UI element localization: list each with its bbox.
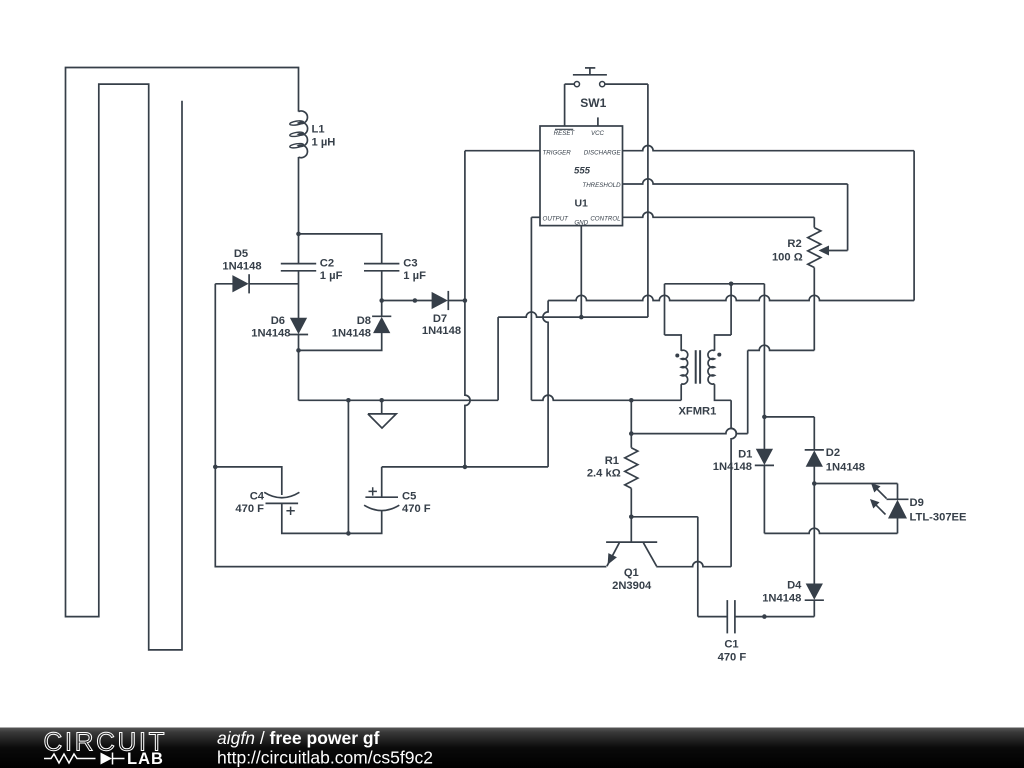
svg-text:GND: GND <box>574 220 588 227</box>
node: D6/D8 bottom junction <box>296 348 301 353</box>
capacitor C2 <box>281 264 316 271</box>
D4 labels <box>762 579 802 604</box>
svg-text:470 F: 470 F <box>718 651 747 663</box>
wire: C5 top to y466 <box>381 467 383 497</box>
logo LAB <box>127 750 164 768</box>
D2 labels <box>826 447 865 474</box>
wire: D7 cathode to trigger rail <box>448 300 465 302</box>
svg-text:1N4148: 1N4148 <box>713 461 752 473</box>
svg-text:CONTROL: CONTROL <box>590 216 621 223</box>
capacitor C1 470F <box>727 600 735 633</box>
XFMR1 phase dot secondary <box>717 353 721 357</box>
wire: D8 top to D7 node <box>381 301 383 317</box>
wire: C3 bottom to D7 node <box>381 271 383 301</box>
svg-text:C5: C5 <box>402 490 416 502</box>
svg-text:R1: R1 <box>605 455 619 467</box>
svg-text:http://circuitlab.com/cs5f9c2: http://circuitlab.com/cs5f9c2 <box>217 747 433 767</box>
svg-text:SW1: SW1 <box>580 96 606 110</box>
capacitor C4 470F <box>264 492 299 515</box>
svg-text:D6: D6 <box>271 315 285 327</box>
diode D2 1N4148 <box>805 450 824 466</box>
wire: right rail down <box>913 151 915 301</box>
wire: line B drop to ground line <box>497 317 499 400</box>
D7 labels <box>422 313 461 337</box>
svg-text:R2: R2 <box>787 238 801 250</box>
wire: OUTPUT pin down <box>531 217 540 400</box>
svg-text:1N4148: 1N4148 <box>251 327 290 339</box>
svg-text:aigfn / free power gf: aigfn / free power gf <box>217 728 380 748</box>
diode D8 1N4148 <box>372 316 391 332</box>
C2 labels <box>320 257 343 282</box>
wire: D5 rail (x=215) down <box>214 284 216 467</box>
pin GND label <box>574 220 588 227</box>
wire: D7 anode <box>382 300 432 302</box>
node: trigger rail / C4 line junction <box>463 465 468 470</box>
wire: D9 bottom to bottom link <box>897 518 899 533</box>
wire: L1 bottom to node <box>298 157 300 234</box>
pin THRESHOLD label <box>582 182 621 189</box>
node: dot on C1 wire <box>762 614 767 619</box>
wire: trigger vertical rail <box>465 151 470 467</box>
wire: C4 bottom to mid node <box>282 503 349 533</box>
footer bar <box>0 728 1024 768</box>
svg-text:C3: C3 <box>403 257 417 269</box>
wire: D6 to bottom node <box>298 335 300 351</box>
svg-text:TRIGGER: TRIGGER <box>543 149 572 156</box>
pin CONTROL label <box>590 216 621 223</box>
capacitor C3 <box>364 264 399 271</box>
svg-text:2N3904: 2N3904 <box>612 580 652 592</box>
wire: SW1 rail down to gnd line <box>647 84 649 317</box>
footer title text <box>217 728 380 748</box>
node: x215/y466 junction <box>213 465 218 470</box>
wire: OUTPUT horizontal to primary bottom <box>531 395 681 400</box>
wire: line A drop at x=548 <box>543 301 548 467</box>
wire: y=466 right segment <box>382 466 548 468</box>
C5 labels <box>402 490 431 515</box>
ground symbol <box>368 400 396 428</box>
LED D9 LTL-307EE <box>871 484 909 518</box>
node: L1/C2/C3 junction <box>296 232 301 237</box>
wire: ground line y=400 <box>299 399 499 401</box>
svg-text:D5: D5 <box>234 248 248 260</box>
svg-text:2.4 kΩ: 2.4 kΩ <box>587 468 621 480</box>
transistor Q1 2N3904 <box>606 542 657 566</box>
wire: Q1 base <box>630 517 632 542</box>
wire: D5 anode from left rail <box>215 283 233 285</box>
wire: C2-bottom rail down <box>298 350 300 400</box>
node: C4/C5 bottom junction <box>346 531 351 536</box>
svg-text:DISCHARGE: DISCHARGE <box>584 149 622 156</box>
resistor R1 2.4k <box>625 448 638 489</box>
D5 labels <box>222 248 261 273</box>
wire: bottom loop left+bottom <box>215 467 606 567</box>
svg-text:D2: D2 <box>826 447 840 459</box>
transformer XFMR1 primary winding <box>681 350 688 384</box>
wire: THRESHOLD to R2 wiper <box>623 179 848 251</box>
XFMR1 phase dot primary <box>675 354 679 358</box>
C1 labels <box>718 639 747 664</box>
svg-text:1 µF: 1 µF <box>403 270 426 282</box>
node: gnd line / C4C5 mid <box>346 398 351 403</box>
wire: top link line y=283 <box>665 283 765 285</box>
svg-text:470 F: 470 F <box>235 503 264 515</box>
wire: emitter to bottom loop <box>215 566 606 568</box>
diode D1 1N4148 <box>755 449 774 465</box>
wire: R2 bottom to transformer-top rail <box>631 345 814 433</box>
svg-text:LAB: LAB <box>127 750 164 768</box>
node: D2/D4/D9 junction <box>812 481 817 486</box>
wire: SW1 right terminal rail <box>605 83 648 85</box>
node: D1/D2 top junction <box>762 415 767 420</box>
wire: SW1 left terminal to RESET <box>565 83 575 85</box>
svg-text:OUTPUT: OUTPUT <box>543 216 570 223</box>
wire: 555 TRIGGER to vertical rail <box>465 150 540 152</box>
wire: 555 GND pin down <box>580 226 582 318</box>
wire: D5 cathode to C2 line <box>249 283 298 285</box>
R2 labels <box>772 238 803 263</box>
svg-text:C4: C4 <box>250 490 265 502</box>
wire: R2 bottom down <box>813 268 815 351</box>
wire: y466 left segment to C4 <box>215 467 281 495</box>
diode D5 1N4148 <box>233 274 249 293</box>
svg-text:THRESHOLD: THRESHOLD <box>582 182 621 189</box>
wire: R1 bottom to base node <box>630 488 632 517</box>
svg-text:D4: D4 <box>787 579 802 591</box>
svg-text:XFMR1: XFMR1 <box>678 406 716 418</box>
label U1 <box>574 198 588 210</box>
wire: line A (y=300) right-to-left <box>548 295 914 300</box>
node: D7/trigger junction <box>463 298 468 303</box>
wire: secondary top <box>715 284 732 351</box>
svg-text:D7: D7 <box>433 313 447 325</box>
wire: node to C3 top <box>299 234 382 264</box>
wire: base node to C1 drop <box>631 517 698 617</box>
node: R1 bottom junction <box>629 515 634 520</box>
svg-text:1 µH: 1 µH <box>312 137 336 149</box>
wire: D2 top to y417 <box>813 417 815 450</box>
pin RESET stub + overline label <box>554 84 576 137</box>
D8 labels <box>332 315 371 339</box>
svg-text:Q1: Q1 <box>624 567 639 579</box>
wire: DISCHARGE to right rail <box>623 146 915 151</box>
wire: D1 bottom <box>763 465 765 533</box>
footer url text <box>217 747 433 767</box>
node: trigger junction on y=466 <box>0 0 1 1</box>
pin OUTPUT label <box>543 216 570 223</box>
svg-text:1N4148: 1N4148 <box>826 462 865 474</box>
svg-text:D1: D1 <box>738 448 752 460</box>
pin VCC stub + label <box>591 117 605 137</box>
XFMR1 label <box>678 406 716 418</box>
svg-text:1N4148: 1N4148 <box>332 327 371 339</box>
transformer XFMR1 secondary winding <box>708 350 715 384</box>
svg-text:100 Ω: 100 Ω <box>772 252 803 264</box>
wire: y417 link <box>764 416 814 418</box>
svg-text:RESET: RESET <box>554 130 576 137</box>
logo resistor-diode glyph <box>44 753 125 765</box>
inductor L1 <box>289 111 307 158</box>
node: R1/collector-line junction <box>629 431 634 436</box>
svg-text:470 F: 470 F <box>402 503 431 515</box>
wire: D4 top to D2 node <box>813 484 815 585</box>
L1 labels <box>312 123 336 148</box>
wire: bottom link y=533 <box>764 528 897 533</box>
node: dot on D7 anode wire <box>413 298 418 303</box>
node: GND junction on line B <box>579 315 584 320</box>
potentiometer R2 100ohm <box>808 228 821 268</box>
wire: mid vertical <box>347 400 349 533</box>
wire: C1 right to D4 <box>735 616 814 618</box>
wire: D1 top rail <box>763 284 765 449</box>
op-amp U1 555 timer box <box>540 126 623 226</box>
pin TRIGGER label <box>543 149 572 156</box>
capacitor C5 470F <box>364 487 399 510</box>
diode D7 1N4148 <box>432 291 448 310</box>
wire: antenna spiral (open rectangular spiral, top-left) <box>66 68 299 650</box>
wire: primary bottom <box>680 384 682 400</box>
switch SW1 pushbutton <box>573 68 607 87</box>
R1 labels <box>587 455 621 480</box>
diode D4 1N4148 <box>805 584 824 600</box>
D9 labels <box>910 497 968 524</box>
node: output/R1 junction <box>629 398 634 403</box>
SW1 label <box>580 96 606 110</box>
wire: primary top <box>665 284 682 351</box>
Q1 labels <box>612 567 652 592</box>
wire: C1 left <box>698 616 728 618</box>
D6 labels <box>251 315 290 339</box>
wire: CONTROL to R2 top <box>623 212 815 227</box>
wire: D8 anode to bottom line <box>299 333 382 351</box>
svg-text:LTL-307EE: LTL-307EE <box>910 512 968 524</box>
svg-text:U1: U1 <box>574 198 588 210</box>
wire: D9 top link <box>814 484 897 500</box>
svg-text:C1: C1 <box>724 639 738 651</box>
wire: C2 bottom to D6 <box>298 271 300 319</box>
wire: collector right and up <box>656 562 731 567</box>
wire: D4 bottom stub <box>813 600 815 616</box>
wire: mid node to C5 bottom <box>348 511 381 534</box>
R2 wiper arrow <box>820 246 829 254</box>
node: D8/D7 anode junction <box>379 298 384 303</box>
svg-text:VCC: VCC <box>591 130 605 137</box>
svg-text:1N4148: 1N4148 <box>222 261 261 273</box>
pin DISCHARGE label <box>584 149 622 156</box>
svg-text:1N4148: 1N4148 <box>422 325 461 337</box>
svg-text:C2: C2 <box>320 257 334 269</box>
C4 labels <box>235 490 264 515</box>
D1 labels <box>713 448 753 473</box>
svg-text:D9: D9 <box>910 497 924 509</box>
wire: node down to C2 top plate <box>298 234 300 264</box>
svg-text:D8: D8 <box>357 315 371 327</box>
XFMR1 core <box>696 350 700 384</box>
label 555 <box>574 166 591 177</box>
svg-text:1N4148: 1N4148 <box>762 592 801 604</box>
svg-text:L1: L1 <box>312 123 325 135</box>
wire: D2 anode to node <box>813 466 815 483</box>
C3 labels <box>403 257 426 282</box>
Q1 emitter arrow <box>608 554 616 564</box>
node: gnd line / gnd symbol <box>379 398 384 403</box>
diode D6 1N4148 <box>289 318 308 334</box>
node: secondary-top junction on y=283 <box>729 282 734 287</box>
svg-text:1 µF: 1 µF <box>320 270 343 282</box>
wire: line B (y=317) <box>498 312 648 317</box>
logo CIRCUIT <box>44 727 168 757</box>
wire: secondary bottom <box>715 384 737 567</box>
svg-text:555: 555 <box>574 166 591 177</box>
wire: R1 top <box>630 400 632 447</box>
